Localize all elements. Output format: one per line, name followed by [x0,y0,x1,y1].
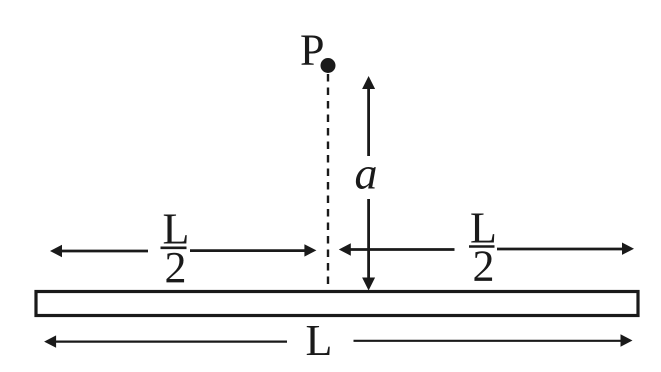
vertical arrow a (down arrowhead) [362,278,375,291]
vertical arrow a (shaft lower) [367,199,370,279]
right L/2 arrow (left arrowhead) [339,243,351,255]
dashed line from P to rod [327,74,329,290]
bottom L arrow (left arrowhead) [44,335,56,347]
right L/2 arrow (right segment) [497,248,624,251]
vertical arrow a (shaft upper) [367,86,370,156]
right L/2 arrow (right arrowhead) [622,243,634,255]
vertical arrow a (up arrowhead) [362,76,375,89]
bottom L arrow (right arrowhead) [621,334,633,346]
bottom L arrow (right segment) [354,340,623,342]
left fraction bar [161,247,187,250]
right fraction bar [469,245,495,248]
left L/2 arrow (right segment) [190,249,306,252]
rod (bar of length L) [36,292,638,316]
svg-text:2: 2 [473,242,495,291]
left L/2 arrow (left segment) [60,250,148,253]
left L/2 arrow (left arrowhead) [50,245,62,257]
point P dot [321,58,336,73]
svg-text:2: 2 [165,243,187,292]
svg-text:a: a [355,148,378,199]
left L/2 arrow (right arrowhead) [304,244,316,256]
right L/2 arrow (left segment, crosses vertical arrow) [349,248,455,251]
bottom L arrow (left segment) [54,341,287,343]
svg-text:L: L [306,316,333,365]
